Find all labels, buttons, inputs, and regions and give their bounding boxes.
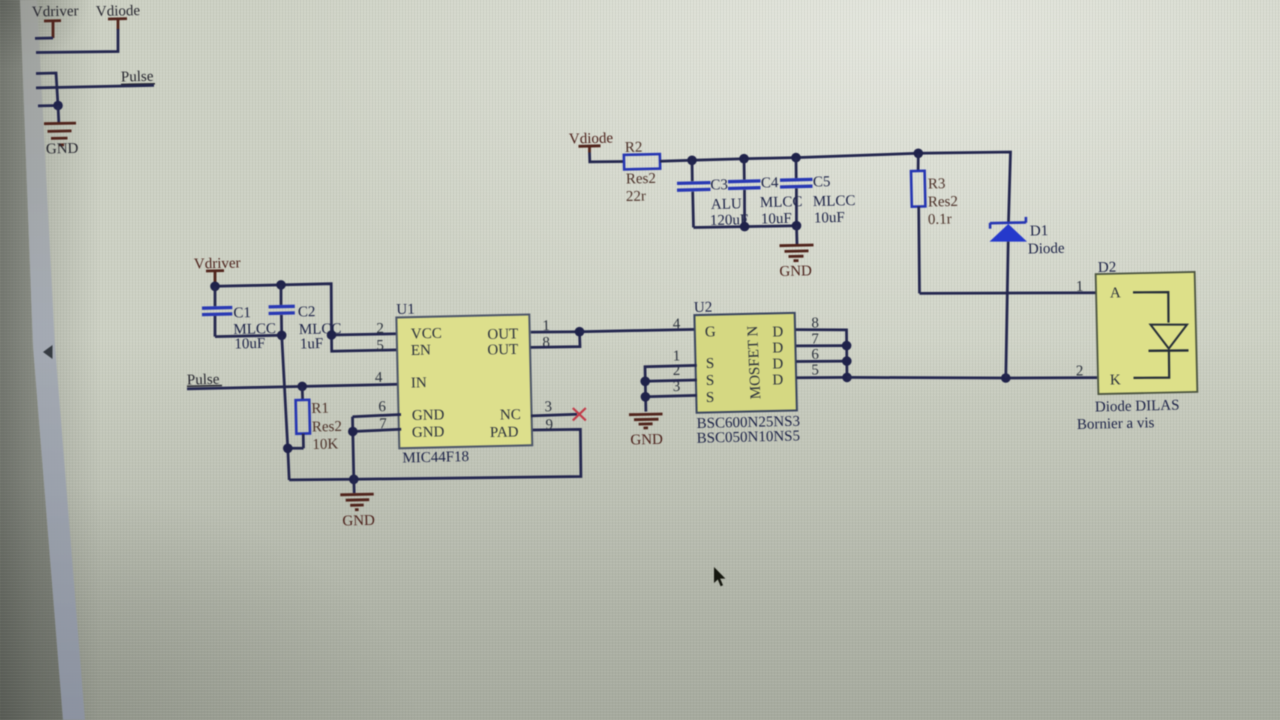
svg-text:5: 5 bbox=[811, 362, 819, 378]
junction R3 bbox=[914, 149, 924, 159]
svg-text:Diode: Diode bbox=[1028, 241, 1065, 258]
svg-text:VCC: VCC bbox=[411, 326, 442, 343]
svg-text:NC: NC bbox=[500, 407, 521, 423]
wire GND run to PAD bbox=[289, 429, 581, 480]
junction D5 bbox=[842, 373, 852, 383]
wire Vdiode to R2 bbox=[590, 153, 625, 162]
svg-text:U2: U2 bbox=[694, 300, 713, 316]
svg-text:GND: GND bbox=[342, 513, 375, 530]
junction D bbox=[277, 331, 287, 341]
wire S pin 1 bbox=[645, 365, 697, 411]
svg-text:22r: 22r bbox=[626, 189, 646, 205]
svg-text:10uF: 10uF bbox=[814, 210, 845, 227]
wire D pin 5 bbox=[797, 376, 847, 379]
svg-text:EN: EN bbox=[411, 343, 432, 359]
op-amp/IC U1 body bbox=[396, 302, 532, 467]
svg-text:10uF: 10uF bbox=[234, 336, 265, 353]
IC U2 body MOSFET bbox=[694, 300, 797, 413]
junction A bbox=[210, 282, 220, 292]
svg-text:S: S bbox=[706, 373, 715, 389]
capacitor C4 bbox=[728, 159, 803, 228]
wire GND stem (mid) bbox=[795, 226, 798, 245]
wire Vdiode stub bbox=[36, 29, 118, 53]
capacitor C2 bbox=[269, 285, 342, 353]
wire pin 7 column bbox=[353, 417, 354, 480]
svg-text:Pulse: Pulse bbox=[121, 69, 154, 86]
svg-text:6: 6 bbox=[378, 399, 386, 415]
wire Pulse to IN bbox=[187, 384, 398, 389]
power port Vdiode (top-left) bbox=[96, 3, 141, 30]
ground GND (top-left) bbox=[44, 123, 79, 157]
wire K net bbox=[847, 376, 1097, 379]
svg-text:10uF: 10uF bbox=[761, 211, 792, 228]
power port Vdriver (mid-left) bbox=[194, 255, 241, 286]
wire Vdriver stub bbox=[35, 37, 53, 40]
junction bbox=[53, 101, 63, 111]
connector D2 body bbox=[1096, 260, 1198, 395]
wire D pin 7 bbox=[796, 344, 846, 347]
wire D2 internal cathode bbox=[1134, 351, 1170, 378]
junction C5 bottom bbox=[792, 221, 802, 231]
svg-text:C5: C5 bbox=[813, 174, 831, 190]
junction S3 bbox=[641, 392, 651, 402]
junction H bbox=[575, 327, 585, 337]
resistor R3 bbox=[911, 153, 958, 293]
diode D1 bbox=[990, 217, 1066, 378]
svg-text:IN: IN bbox=[411, 375, 427, 391]
svg-text:MOSFET N: MOSFET N bbox=[745, 325, 764, 399]
svg-text:R1: R1 bbox=[311, 401, 329, 417]
junction K bbox=[1001, 373, 1011, 383]
svg-text:C4: C4 bbox=[761, 175, 779, 191]
svg-text:C2: C2 bbox=[298, 304, 316, 320]
svg-text:GND: GND bbox=[412, 407, 445, 424]
scrollbar band bbox=[20, 0, 85, 720]
wire pin 7 bbox=[353, 429, 401, 431]
svg-text:4: 4 bbox=[673, 316, 681, 332]
junction C3 bbox=[687, 156, 697, 166]
svg-text:D: D bbox=[772, 356, 783, 372]
svg-text:Vdriver: Vdriver bbox=[32, 3, 79, 20]
no connect cross bbox=[573, 408, 586, 420]
wire S pin 2 bbox=[645, 380, 697, 381]
svg-text:K: K bbox=[1110, 372, 1121, 388]
junction S2 bbox=[640, 377, 650, 387]
net label Pulse (mid) bbox=[187, 372, 222, 389]
wire stub bbox=[38, 104, 58, 107]
resistor R1 bbox=[296, 386, 342, 453]
junction D7 bbox=[842, 341, 852, 351]
svg-text:4: 4 bbox=[375, 370, 383, 386]
svg-text:Bornier a vis: Bornier a vis bbox=[1077, 415, 1155, 433]
wire VCC stub bbox=[332, 334, 398, 335]
wire GND stem bbox=[352, 479, 355, 493]
svg-text:MLCC: MLCC bbox=[813, 193, 856, 210]
diode symbol inside D2 bbox=[1149, 325, 1189, 351]
svg-text:D1: D1 bbox=[1030, 223, 1049, 239]
svg-text:D: D bbox=[772, 340, 783, 356]
svg-text:BSC050N10NS5: BSC050N10NS5 bbox=[697, 428, 801, 446]
svg-text:PAD: PAD bbox=[490, 424, 519, 441]
svg-text:GND: GND bbox=[46, 141, 79, 158]
svg-text:Res2: Res2 bbox=[312, 419, 342, 436]
wire D2 internal anode bbox=[1133, 292, 1169, 323]
svg-text:D2: D2 bbox=[1098, 260, 1117, 276]
svg-text:9: 9 bbox=[545, 417, 553, 433]
junction D6 bbox=[842, 356, 852, 366]
svg-text:8: 8 bbox=[542, 335, 550, 351]
svg-text:MIC44F18: MIC44F18 bbox=[402, 449, 469, 467]
svg-text:1uF: 1uF bbox=[300, 336, 324, 353]
junction G bbox=[348, 427, 358, 437]
svg-text:ALU: ALU bbox=[711, 196, 742, 213]
wire pin 6 bbox=[353, 415, 402, 417]
svg-text:2: 2 bbox=[376, 321, 384, 337]
svg-text:G: G bbox=[705, 324, 716, 340]
ground GND (mid) bbox=[779, 245, 813, 280]
svg-text:S: S bbox=[706, 356, 715, 372]
svg-text:U1: U1 bbox=[396, 302, 415, 318]
wire GND drop (top-left) bbox=[57, 106, 61, 123]
junction C4 bbox=[739, 154, 749, 164]
svg-text:D: D bbox=[772, 324, 783, 340]
junction E bbox=[283, 444, 293, 454]
wire Vdriver rail to EN bbox=[215, 284, 398, 352]
junction R1 top bbox=[297, 382, 307, 392]
capacitor C3 bbox=[677, 160, 748, 229]
resistor R2 bbox=[624, 140, 660, 205]
wire D pin 8 bbox=[796, 330, 847, 378]
wire R1 bottom jog bbox=[288, 448, 304, 480]
svg-text:S: S bbox=[706, 390, 715, 406]
wire C2 GND drop bbox=[282, 335, 288, 448]
wire Vdiode rail bbox=[660, 152, 1011, 222]
wire caps bottom rail bbox=[694, 226, 797, 228]
svg-text:GND: GND bbox=[630, 432, 663, 449]
panel collapse arrow bbox=[43, 345, 53, 359]
mouse cursor bbox=[714, 567, 725, 586]
wire pin 8 OUT bbox=[531, 332, 580, 348]
power port Vdiode (mid) bbox=[569, 130, 614, 152]
junction C4 bottom bbox=[740, 222, 750, 232]
wire pulse bracket bbox=[36, 73, 58, 106]
capacitor C1 bbox=[202, 286, 276, 352]
left dark margin strip bbox=[0, 0, 63, 720]
svg-text:R2: R2 bbox=[625, 140, 643, 156]
svg-text:OUT: OUT bbox=[487, 342, 518, 359]
svg-text:Res2: Res2 bbox=[928, 194, 958, 211]
wire Pulse (top-left) bbox=[36, 85, 154, 88]
junction C5 bbox=[791, 153, 801, 163]
svg-text:C1: C1 bbox=[233, 305, 251, 321]
net label Pulse (top-left) bbox=[121, 69, 155, 86]
svg-text:A: A bbox=[1110, 285, 1121, 301]
wire OUT to G bbox=[580, 329, 696, 331]
wire C1-C2 bottom rail bbox=[215, 335, 282, 336]
svg-text:R3: R3 bbox=[928, 176, 946, 192]
ground GND (under U1) bbox=[340, 494, 375, 529]
junction C bbox=[327, 330, 337, 340]
svg-text:C3: C3 bbox=[710, 177, 728, 193]
power port Vdriver (top-left) bbox=[32, 3, 79, 38]
junction B bbox=[276, 280, 286, 290]
wire pin 3 NC bbox=[531, 414, 577, 416]
svg-text:5: 5 bbox=[376, 338, 384, 354]
wire pin 1 OUT bbox=[531, 330, 580, 333]
svg-text:Diode DILAS: Diode DILAS bbox=[1095, 398, 1180, 416]
wire S pin 3 bbox=[645, 395, 697, 396]
svg-text:GND: GND bbox=[779, 263, 812, 280]
svg-text:OUT: OUT bbox=[487, 326, 518, 343]
wire A net bbox=[920, 291, 1098, 294]
svg-text:2: 2 bbox=[1076, 363, 1084, 379]
junction F bbox=[349, 475, 359, 485]
svg-text:3: 3 bbox=[544, 399, 552, 415]
ground GND (under U2) bbox=[629, 414, 663, 448]
wire D pin 6 bbox=[796, 360, 846, 363]
svg-text:D: D bbox=[772, 372, 783, 388]
svg-text:0.1r: 0.1r bbox=[928, 211, 952, 228]
capacitor C5 bbox=[780, 158, 856, 227]
svg-text:Res2: Res2 bbox=[626, 171, 656, 188]
svg-text:1: 1 bbox=[1076, 279, 1084, 295]
svg-text:10K: 10K bbox=[312, 436, 338, 453]
svg-text:GND: GND bbox=[412, 424, 445, 441]
